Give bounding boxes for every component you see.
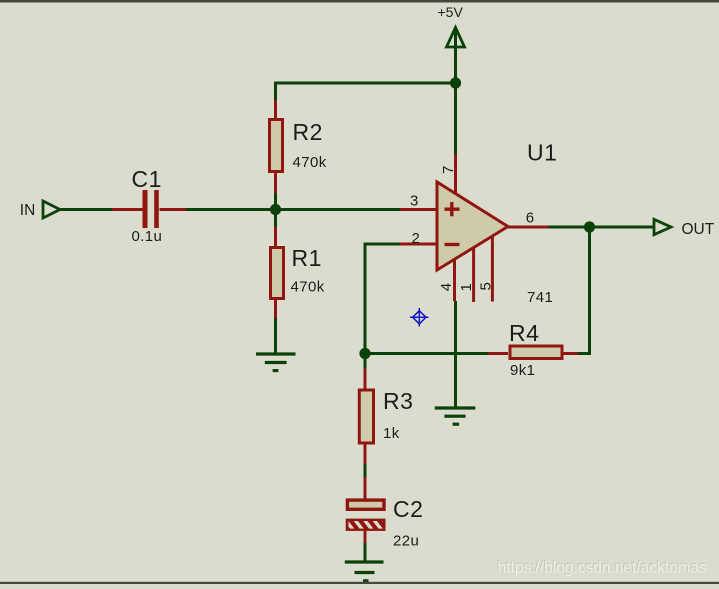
svg-text:9k1: 9k1 [510,362,535,379]
svg-text:C2: C2 [393,496,423,522]
svg-text:5: 5 [478,282,495,290]
svg-text:741: 741 [527,289,553,306]
svg-text:https://blog.csdn.net/acktomas: https://blog.csdn.net/acktomas [498,560,708,577]
svg-text:R1: R1 [292,245,322,271]
svg-text:470k: 470k [291,279,325,296]
svg-text:C1: C1 [132,166,162,192]
svg-text:+5V: +5V [438,4,464,20]
svg-text:3: 3 [410,192,418,209]
svg-text:0.1u: 0.1u [132,228,163,245]
svg-text:470k: 470k [293,154,327,171]
svg-text:22u: 22u [393,533,419,550]
svg-text:R4: R4 [509,320,539,346]
svg-text:7: 7 [440,166,457,174]
svg-text:4: 4 [438,283,455,291]
svg-text:1: 1 [458,283,475,291]
svg-text:U1: U1 [527,140,557,166]
svg-text:2: 2 [412,230,420,247]
svg-text:6: 6 [526,210,534,227]
svg-text:IN: IN [20,202,36,219]
svg-text:1k: 1k [383,425,400,442]
svg-text:OUT: OUT [682,221,715,238]
svg-text:R3: R3 [383,388,413,414]
svg-text:R2: R2 [293,119,323,145]
